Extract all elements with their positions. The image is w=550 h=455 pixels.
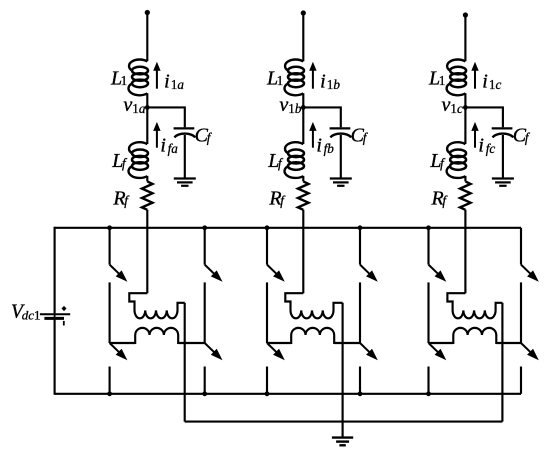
wire <box>266 367 268 394</box>
wire (phase a return to neutral) <box>184 303 186 422</box>
ground (Cf phase b) <box>330 177 352 179</box>
switch Sa4 (lower right, phase a) <box>205 343 215 353</box>
inductor Lf (phase b) <box>285 142 303 153</box>
switch Sa3 (upper right, phase a) <box>205 265 215 275</box>
svg-text:1a: 1a <box>171 77 185 92</box>
transformer Tc primary <box>447 293 502 318</box>
node a-right leg / -bus <box>202 391 207 396</box>
switch Sb1 (upper left, phase b) <box>267 265 277 275</box>
wire <box>303 106 341 108</box>
svg-text:f: f <box>440 155 446 170</box>
wire <box>204 228 206 265</box>
svg-text:i: i <box>160 135 166 157</box>
node a-left leg / +bus <box>107 225 112 230</box>
wire negative dc bus <box>55 393 521 395</box>
wire (phase c return to neutral) <box>501 303 503 422</box>
wire <box>464 176 466 182</box>
node c-left leg / +bus <box>426 225 431 230</box>
node c-left leg / -bus <box>426 391 431 396</box>
resistor Rf (phase a) <box>142 181 153 209</box>
inductor Lf (phase a) <box>129 142 147 153</box>
wire <box>359 367 361 394</box>
wire <box>359 228 361 265</box>
transformer Tb primary <box>285 293 342 318</box>
svg-text:i: i <box>316 135 322 157</box>
switch Sc1 (upper left, phase c) <box>429 265 439 275</box>
svg-text:1: 1 <box>121 73 128 88</box>
switch Sa2 (lower left, phase a) <box>110 343 120 353</box>
node b-right leg / +bus <box>358 225 363 230</box>
svg-text:i: i <box>482 71 488 93</box>
wire <box>109 367 111 394</box>
node a-left leg / -bus <box>107 391 112 396</box>
svg-text:i: i <box>164 71 170 93</box>
wire <box>204 367 206 394</box>
switch Sa1 (upper left, phase a) <box>110 265 120 275</box>
svg-text:fb: fb <box>324 141 335 156</box>
wire <box>496 342 521 344</box>
node v1c <box>463 105 468 110</box>
wire <box>359 282 361 343</box>
wire <box>302 210 304 293</box>
wire <box>465 106 503 108</box>
current arrow i1b <box>312 69 314 89</box>
svg-text:1c: 1c <box>450 101 463 116</box>
wire <box>204 282 206 343</box>
switch Sc3 (upper right, phase c) <box>521 265 531 275</box>
node b-left leg / -bus <box>265 391 270 396</box>
svg-text:1c: 1c <box>489 77 502 92</box>
current arrow ifc <box>474 129 476 147</box>
node b-left leg / +bus <box>265 225 270 230</box>
wire <box>302 176 304 182</box>
ground (Cf phase a) <box>174 177 196 179</box>
svg-text:1: 1 <box>439 73 446 88</box>
wire <box>178 342 205 344</box>
wire <box>266 228 268 265</box>
wire <box>266 282 268 343</box>
node v1a <box>145 105 150 110</box>
wire <box>146 210 148 293</box>
svg-text:f: f <box>124 193 130 208</box>
wire <box>520 367 522 394</box>
svg-text:i: i <box>320 71 326 93</box>
svg-text:v: v <box>279 94 288 116</box>
transformer Ta secondary <box>135 328 178 344</box>
wire <box>427 228 429 265</box>
current arrow i1a <box>156 69 158 89</box>
wire <box>334 342 360 344</box>
wire neutral link <box>185 421 503 423</box>
wire <box>464 93 466 144</box>
dc source Vdc1 <box>54 313 56 319</box>
switch Sb4 (lower right, phase b) <box>360 343 370 353</box>
svg-text:f: f <box>207 130 213 145</box>
switch Sb2 (lower left, phase b) <box>267 343 277 353</box>
svg-text:1: 1 <box>277 73 284 88</box>
capacitor Cf (phase a) <box>174 127 195 129</box>
wire <box>146 176 148 182</box>
svg-text:v: v <box>123 94 132 116</box>
node phase c ac terminal <box>463 12 468 17</box>
wire <box>502 135 504 178</box>
wire <box>520 228 522 265</box>
svg-text:i: i <box>478 135 484 157</box>
transformer Ta primary <box>129 293 184 318</box>
wire <box>340 135 342 178</box>
svg-text:1b: 1b <box>327 77 341 92</box>
wire <box>54 227 56 313</box>
wire <box>342 422 344 437</box>
wire <box>267 342 291 344</box>
wire <box>429 342 454 344</box>
svg-text:f: f <box>122 155 128 170</box>
wire <box>427 367 429 394</box>
current arrow i1c <box>474 69 476 89</box>
svg-text:fc: fc <box>486 141 496 156</box>
resistor Rf (phase b) <box>298 181 309 209</box>
transformer Tb secondary <box>291 328 334 344</box>
svg-text:v: v <box>441 94 450 116</box>
svg-text:1a: 1a <box>132 101 146 116</box>
resistor Rf (phase c) <box>460 181 471 209</box>
wire <box>302 93 304 144</box>
wire <box>109 228 111 265</box>
wire <box>109 282 111 343</box>
wire <box>146 13 148 62</box>
wire <box>464 210 466 293</box>
svg-text:fa: fa <box>168 141 179 156</box>
svg-text:f: f <box>280 193 286 208</box>
wire <box>147 106 185 108</box>
wire <box>110 342 136 344</box>
inductor L1 (phase c) <box>447 59 465 70</box>
wire (phase b return to neutral) <box>342 303 344 422</box>
ground (main) <box>332 436 353 438</box>
svg-text:f: f <box>278 155 284 170</box>
current arrow ifa <box>156 129 158 147</box>
svg-text:f: f <box>442 193 448 208</box>
node v1b <box>301 105 306 110</box>
current arrow ifb <box>312 129 314 147</box>
inductor L1 (phase a) <box>129 59 147 70</box>
switch Sc4 (lower right, phase c) <box>521 343 531 353</box>
wire positive dc bus <box>55 227 521 229</box>
node a-right leg / +bus <box>202 225 207 230</box>
inductor L1 (phase b) <box>285 59 303 70</box>
node b-right leg / -bus <box>358 391 363 396</box>
capacitor Cf (phase c) <box>492 127 513 129</box>
wire <box>427 282 429 343</box>
svg-text:f: f <box>363 130 369 145</box>
node phase a ac terminal <box>145 10 150 15</box>
transformer Tc secondary <box>453 328 496 344</box>
svg-text:f: f <box>525 130 531 145</box>
wire <box>184 135 186 178</box>
switch Sb3 (upper right, phase b) <box>360 265 370 275</box>
inductor Lf (phase c) <box>447 142 465 153</box>
wire <box>520 282 522 343</box>
wire <box>54 319 56 395</box>
capacitor Cf (phase b) <box>330 127 351 129</box>
switch Sc2 (lower left, phase c) <box>429 343 439 353</box>
wire <box>464 15 466 61</box>
ground (Cf phase c) <box>492 177 514 179</box>
wire <box>146 93 148 144</box>
svg-text:dc1: dc1 <box>22 308 41 323</box>
wire <box>302 13 304 61</box>
node phase b ac terminal <box>301 10 306 15</box>
svg-text:1b: 1b <box>288 101 302 116</box>
